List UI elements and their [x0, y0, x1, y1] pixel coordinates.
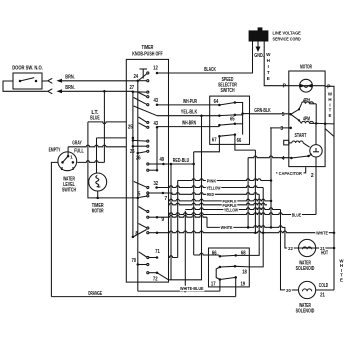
wire empty to orange border	[51, 162, 58, 296]
svg-text:T: T	[267, 70, 270, 75]
water solenoid hot	[299, 239, 316, 256]
svg-text:17: 17	[211, 281, 216, 287]
timer contact row 96	[147, 96, 149, 98]
water selector box	[209, 248, 250, 287]
svg-text:WHITE: WHITE	[221, 225, 233, 231]
svg-text:W: W	[266, 52, 271, 57]
wire LT BLUE	[88, 122, 126, 124]
svg-text:SWITCH: SWITCH	[220, 88, 234, 94]
svg-text:FULL: FULL	[74, 149, 83, 155]
wire WH-PUR timer 43 to 64	[157, 104, 219, 106]
loom vertical C red to 68	[249, 194, 259, 255]
timer wire 43 to 49 vertical	[156, 127, 158, 170]
svg-text:70: 70	[131, 258, 136, 264]
wire WHITE bus 2	[157, 231, 334, 233]
speed selector box	[210, 96, 250, 144]
water selector exit to orange	[235, 277, 237, 296]
svg-text:66: 66	[212, 251, 217, 257]
svg-text:19: 19	[240, 282, 245, 288]
svg-text:18: 18	[242, 270, 247, 276]
wire BLACK plug to timer 12	[157, 42, 253, 74]
wire 71 up vertical	[169, 256, 178, 258]
wire motor start diagonal	[325, 129, 334, 137]
wire GRN-BLK speed selector to motor 5	[250, 113, 291, 115]
svg-text:TIMER: TIMER	[142, 45, 154, 51]
svg-text:E: E	[340, 277, 343, 282]
svg-text:WH-PUR: WH-PUR	[183, 99, 197, 105]
svg-text:21: 21	[320, 293, 325, 299]
wire timer motor bottom	[97, 191, 99, 198]
svg-text:ORANGE: ORANGE	[88, 291, 103, 297]
svg-text:WH-BRN: WH-BRN	[182, 121, 196, 127]
timer yel-blk takeoff blade	[134, 106, 157, 116]
svg-text:68: 68	[241, 251, 246, 257]
wire timer motor top	[97, 137, 127, 139]
svg-text:KNOB-PUSH OFF: KNOB-PUSH OFF	[132, 52, 163, 58]
connector arrow bottom	[48, 89, 53, 94]
speed selector bottom exit left	[194, 136, 220, 152]
svg-text:BRN.: BRN.	[65, 85, 75, 91]
svg-text:7: 7	[164, 196, 167, 202]
svg-text:MOTOR: MOTOR	[92, 209, 104, 215]
svg-text:5: 5	[138, 191, 141, 197]
timer contact row 228	[147, 227, 149, 229]
wire PURPLE 2	[169, 203, 268, 205]
svg-text:43: 43	[153, 98, 158, 104]
svg-text:GRAY: GRAY	[72, 141, 82, 147]
svg-text:SWITCH: SWITCH	[62, 188, 76, 194]
wire door switch right to connector	[42, 80, 48, 82]
svg-text:PINK: PINK	[207, 179, 217, 185]
svg-text:MOTOR: MOTOR	[300, 65, 312, 71]
ground wire	[257, 42, 259, 47]
svg-text:22: 22	[288, 246, 293, 252]
wire PINK	[178, 179, 271, 181]
timer contact row 213	[147, 210, 149, 212]
svg-text:GND.: GND.	[254, 53, 264, 59]
svg-text:65: 65	[230, 116, 235, 122]
wire WHITE plug to motor P	[264, 42, 289, 86]
water selector left bus 17	[216, 267, 220, 280]
svg-text:RED-BLU: RED-BLU	[173, 158, 190, 164]
loom vertical H yellow2 to solenoid 20	[281, 210, 286, 290]
loom vertical D yellow to 18	[249, 188, 263, 267]
svg-text:HOT: HOT	[321, 250, 328, 256]
line voltage service cord plug	[249, 30, 269, 41]
motor start switch	[310, 145, 322, 157]
wire motor right to solenoids	[325, 86, 334, 290]
svg-text:SOLENOID: SOLENOID	[296, 309, 315, 315]
wire WHITE bus 1	[157, 215, 207, 217]
wire RED	[163, 193, 172, 194]
svg-text:BLUE: BLUE	[292, 213, 302, 219]
svg-text:RED: RED	[207, 192, 214, 198]
wire PURPLE 1	[169, 199, 272, 201]
svg-text:25: 25	[128, 124, 133, 130]
svg-text:66: 66	[237, 138, 242, 144]
svg-text:72: 72	[153, 277, 158, 283]
timer bus wire inner	[137, 81, 139, 265]
loom vertical 185	[184, 211, 186, 291]
svg-text:20: 20	[286, 288, 291, 294]
svg-text:BLACK: BLACK	[204, 67, 216, 73]
svg-text:BLUE: BLUE	[90, 115, 100, 121]
svg-text:4: 4	[282, 156, 285, 162]
svg-text:27: 27	[129, 85, 134, 91]
timer knob push-off symbol	[140, 68, 148, 70]
wire ORANGE bottom	[51, 296, 235, 298]
wire solenoid hot right 21	[316, 247, 334, 249]
svg-text:* CAPACITOR: * CAPACITOR	[276, 171, 302, 177]
svg-text:2: 2	[311, 173, 314, 179]
wire WH-BRN timer 43 to 67	[157, 126, 219, 128]
motor box	[289, 71, 325, 167]
svg-text:26: 26	[130, 149, 135, 155]
arrowhead BRN top	[57, 79, 63, 83]
svg-text:24: 24	[133, 74, 138, 80]
timer box	[126, 59, 168, 282]
svg-text:67: 67	[212, 138, 217, 144]
svg-text:COLD: COLD	[319, 283, 329, 289]
wire RED-BLU from timer 49	[163, 163, 193, 165]
wire BRN bottom to timer contact 27	[62, 90, 133, 92]
wire BLUE	[169, 213, 317, 215]
water level switch	[58, 152, 77, 171]
svg-text:SERVICE CORD: SERVICE CORD	[273, 37, 302, 43]
svg-text:LINE VOLTAGE: LINE VOLTAGE	[273, 31, 302, 37]
loom vertical to water selector 66	[193, 152, 195, 255]
svg-text:YEL-BLK: YEL-BLK	[181, 110, 198, 116]
svg-text:E: E	[329, 113, 332, 118]
wire motor 3 left	[270, 127, 291, 129]
arrowhead BRN bottom	[57, 89, 63, 93]
svg-text:5: 5	[282, 112, 285, 118]
svg-text:32: 32	[153, 181, 158, 187]
speed selector bottom exit right	[235, 135, 256, 151]
speed selector right bus	[235, 103, 243, 135]
motor winding right bus	[315, 104, 317, 124]
svg-text:64: 64	[214, 99, 219, 105]
svg-text:GRN-BLK: GRN-BLK	[254, 108, 271, 114]
svg-text:YELLOW: YELLOW	[224, 207, 238, 213]
wire white to solenoid 22	[285, 227, 299, 248]
timer contact row 122	[147, 121, 149, 123]
svg-text:71: 71	[155, 249, 160, 255]
timer motor	[89, 173, 107, 191]
water selector exit to white-blue	[219, 280, 221, 292]
svg-text:H: H	[328, 97, 331, 102]
svg-text:DOOR SW. N.O.: DOOR SW. N.O.	[12, 66, 43, 72]
svg-text:WHITE-BLUE: WHITE-BLUE	[180, 286, 204, 292]
loom vertical E motor3	[270, 128, 272, 227]
wire full right up to door brn	[77, 161, 104, 163]
svg-text:9: 9	[161, 217, 164, 223]
wire WHITE-BLUE	[137, 265, 139, 292]
motor protector	[300, 79, 313, 92]
wire motor 4 left	[247, 158, 249, 228]
wire BRN top to timer contact 24	[62, 80, 138, 82]
svg-text:WHITE: WHITE	[316, 231, 328, 237]
timer bus wire left	[132, 92, 134, 237]
svg-text:3: 3	[280, 126, 283, 132]
svg-text:BRN.: BRN.	[65, 75, 75, 81]
motor start winding	[292, 141, 303, 143]
svg-text:YELLOW: YELLOW	[206, 186, 220, 192]
wire capacitor 2 blue	[315, 158, 317, 215]
water selector contact row2	[219, 266, 222, 269]
wire YEL-BLK to 65	[157, 115, 219, 117]
motor start block	[284, 140, 289, 145]
loom vertical B	[254, 150, 256, 233]
svg-text:I: I	[268, 64, 269, 69]
svg-text:E: E	[267, 76, 270, 81]
svg-text:I: I	[329, 102, 330, 107]
wire 72 and YEL-BLK vertical	[169, 116, 202, 280]
svg-text:SOLENOID: SOLENOID	[296, 266, 315, 272]
connector arrow top	[48, 78, 53, 83]
wire red-blu branch down to 72	[170, 164, 172, 280]
svg-text:EMPTY: EMPTY	[49, 148, 61, 154]
wire door switch left loop	[3, 81, 48, 91]
svg-text:START: START	[295, 133, 307, 139]
wire YELLOW	[157, 186, 264, 188]
water solenoid cold	[299, 281, 316, 298]
svg-text:49: 49	[159, 157, 164, 163]
wire solenoid cold right 21	[316, 289, 334, 291]
wire GRAY full to timer	[67, 147, 69, 156]
wire YELLOW 2	[185, 208, 280, 210]
svg-text:26: 26	[136, 156, 141, 162]
timer contact rows 141-151	[147, 140, 149, 142]
svg-text:12: 12	[153, 66, 158, 72]
svg-text:T: T	[329, 108, 332, 113]
